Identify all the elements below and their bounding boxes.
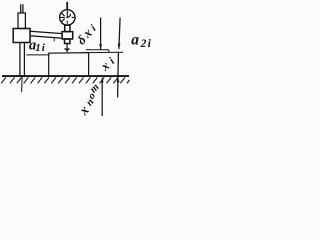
- svg-text:1i: 1i: [35, 42, 46, 54]
- svg-text:2i: 2i: [140, 38, 153, 50]
- svg-text:a: a: [131, 31, 139, 48]
